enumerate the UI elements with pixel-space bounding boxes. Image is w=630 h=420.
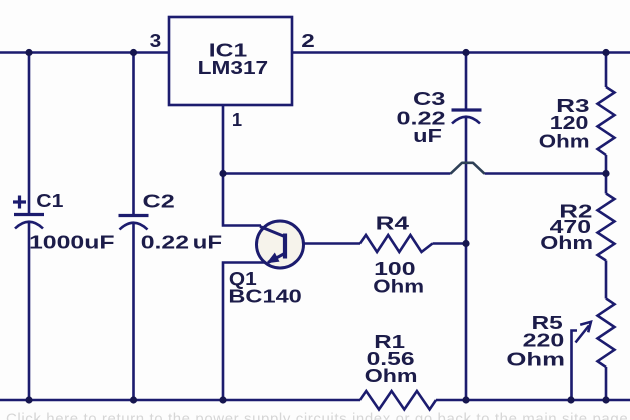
svg-text:Click here to return to the po: Click here to return to the power supply… bbox=[6, 411, 630, 420]
svg-text:Ohm: Ohm bbox=[506, 349, 565, 370]
svg-text:C3: C3 bbox=[413, 89, 445, 110]
svg-text:Ohm: Ohm bbox=[365, 366, 418, 386]
svg-text:Ohm: Ohm bbox=[539, 131, 590, 152]
svg-text:Ohm: Ohm bbox=[540, 233, 593, 253]
svg-text:Ohm: Ohm bbox=[373, 276, 424, 297]
svg-text:2: 2 bbox=[301, 30, 315, 51]
svg-text:3: 3 bbox=[150, 31, 162, 52]
svg-text:uF: uF bbox=[193, 232, 222, 253]
svg-text:220: 220 bbox=[523, 330, 565, 351]
svg-text:uF: uF bbox=[413, 126, 442, 146]
svg-text:BC140: BC140 bbox=[228, 287, 301, 307]
svg-text:C2: C2 bbox=[143, 191, 175, 212]
svg-text:1000uF: 1000uF bbox=[29, 231, 115, 252]
svg-text:1: 1 bbox=[232, 109, 242, 130]
svg-text:C1: C1 bbox=[36, 191, 63, 211]
svg-text:0.22: 0.22 bbox=[141, 231, 189, 252]
svg-text:R4: R4 bbox=[376, 213, 410, 233]
svg-text:LM317: LM317 bbox=[198, 58, 269, 79]
